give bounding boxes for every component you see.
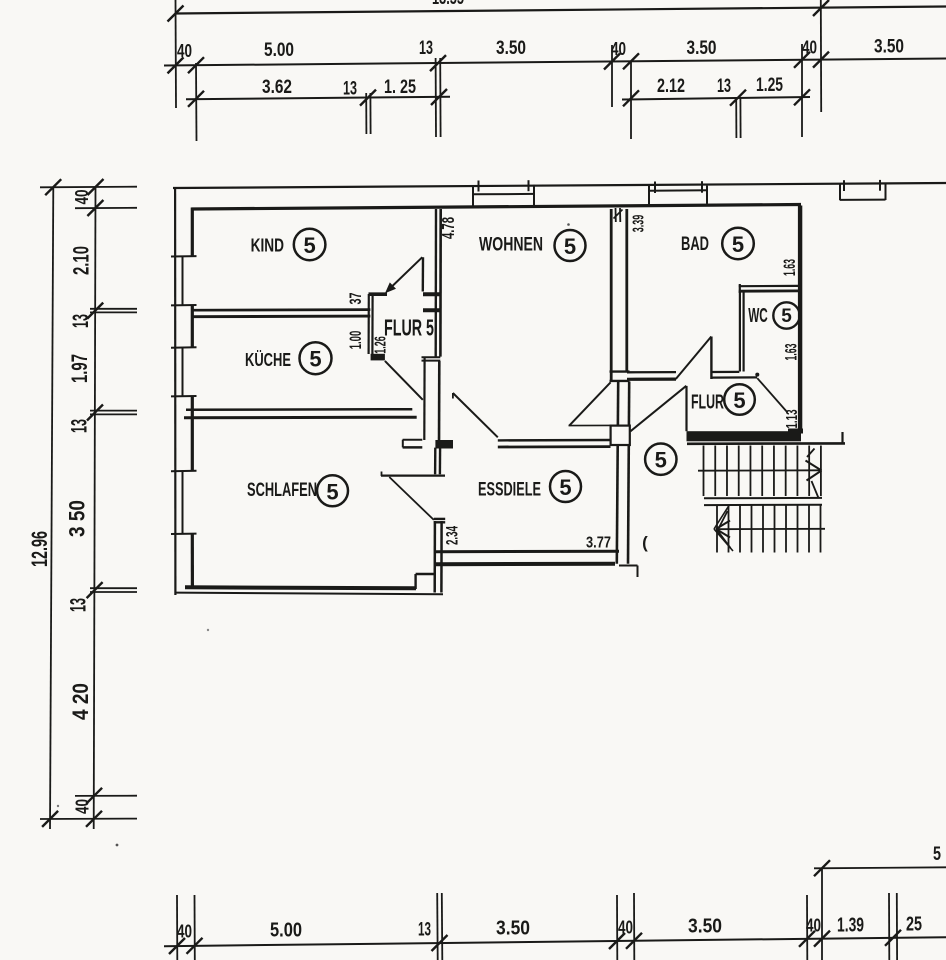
SCHLAFEN door swing — [389, 477, 434, 520]
left tick y=187 top — [40, 186, 137, 189]
BAD door leaf — [710, 337, 712, 380]
svg-text:13: 13 — [418, 919, 431, 941]
window WOHNEN (north wall) — [472, 185, 474, 207]
svg-text:13: 13 — [343, 78, 357, 100]
window SCHLAFEN (west wall) — [171, 470, 197, 472]
north exterior wall inner line — [192, 205, 802, 210]
window KUECHE (west wall) — [171, 346, 197, 348]
svg-text:40: 40 — [802, 38, 817, 58]
KUECHE door hinge block — [371, 354, 385, 361]
extension line x=612 (top) — [611, 45, 613, 107]
bottom partial dim line with 5 — [814, 867, 946, 868]
svg-text:3.50: 3.50 — [688, 916, 722, 938]
SCHLAFEN door leaf (open, horizontal) — [381, 475, 445, 477]
svg-text:WOHNEN: WOHNEN — [479, 233, 543, 255]
east wall bottom cap — [788, 429, 803, 434]
svg-text:40: 40 — [177, 41, 192, 61]
KUECHE door swing — [385, 361, 423, 400]
extension line x=175 (top) — [175, 0, 178, 108]
bottom dimension line (40/5.00/13/3.50/40/3.50/40/1.39/25) — [164, 937, 946, 946]
svg-text:5.00: 5.00 — [270, 920, 302, 942]
left tick y=310 double (13) — [90, 308, 137, 310]
BAD south wall right segment — [712, 371, 740, 373]
svg-text:5: 5 — [309, 347, 321, 372]
ESSDIELE north wall right segment — [498, 439, 611, 442]
svg-text:3.77: 3.77 — [586, 535, 611, 552]
left dimension inner vertical — [94, 187, 96, 829]
FLUR south wall (solid black) — [687, 431, 802, 441]
svg-text:40: 40 — [611, 39, 626, 59]
WC west wall — [739, 291, 741, 372]
svg-text:5: 5 — [933, 843, 941, 865]
svg-text:3.50: 3.50 — [874, 36, 904, 58]
extension line x=736/740 double (top 13) — [735, 97, 737, 138]
KIND door jamb cap left — [369, 292, 388, 296]
ESSDIELE east wall (to stair hall) — [617, 382, 618, 564]
svg-text:25: 25 — [906, 914, 922, 936]
WOHNEN/FLUR door leaf — [569, 382, 610, 425]
svg-text:1.97: 1.97 — [67, 354, 92, 383]
svg-text:1.63: 1.63 — [782, 344, 800, 361]
svg-text:FLUR 5: FLUR 5 — [384, 315, 434, 341]
WOHNEN west wall stub (thick) — [423, 357, 426, 440]
south exterior wall inner line (SCHLAFEN) — [185, 587, 416, 588]
svg-text:1.39: 1.39 — [837, 915, 864, 937]
svg-text:40: 40 — [806, 916, 821, 936]
BAD door swing — [676, 337, 712, 380]
room number KUECHE — [300, 342, 332, 374]
extension line x=821 (top) — [820, 0, 822, 112]
north exterior wall outer line — [173, 183, 946, 188]
room number SCHLAFEN — [317, 475, 348, 506]
svg-text:5: 5 — [732, 232, 744, 257]
left tick y=819 bottom — [40, 818, 137, 820]
jamb rect left of stub (ESSDIELE north-west) — [403, 439, 423, 441]
svg-text:40: 40 — [177, 922, 192, 942]
window BAD (north wall) — [648, 186, 650, 204]
svg-text:37: 37 — [346, 293, 365, 305]
room number ESSDIELE — [550, 471, 581, 502]
stair landing lines — [704, 497, 822, 499]
ESSDIELE south wall — [434, 550, 619, 554]
svg-text:13: 13 — [67, 419, 92, 433]
wall SCHLAFEN/ESSDIELE upper segment — [434, 448, 437, 475]
stair hall top line — [687, 442, 845, 445]
svg-text:BAD: BAD — [681, 234, 709, 255]
dimension line 2 (40/5.00/13/3.50/40/3.50/40/3.50) — [164, 59, 946, 66]
dimension line 3 left (3.62/13/1.25) — [186, 97, 450, 99]
svg-text:(: ( — [642, 533, 648, 552]
window right (north wall, neighbour) — [839, 184, 841, 200]
svg-text:1.13: 1.13 — [784, 409, 801, 428]
dimension line: overall width 13.55 (top) — [175, 7, 946, 14]
stair lower flight arrow (left) — [716, 528, 825, 530]
left tick y=796 — [75, 795, 137, 797]
wall KUECHE/SCHLAFEN — [186, 408, 412, 411]
svg-text:5: 5 — [303, 233, 315, 258]
wall SCHLAFEN/ESSDIELE lower segment — [434, 518, 445, 520]
svg-text:5: 5 — [733, 388, 745, 413]
svg-text:5: 5 — [781, 306, 792, 327]
extension line x=436/440 double (top 13) — [435, 58, 437, 137]
svg-text:1.00: 1.00 — [346, 331, 365, 350]
entrance jamb rect — [611, 426, 630, 445]
svg-text:1.63: 1.63 — [781, 259, 799, 276]
stair upper flight treads — [703, 446, 705, 497]
extension line x=631 (top) — [630, 61, 632, 139]
stair right stub — [841, 432, 843, 444]
bottom extension lines — [176, 895, 178, 960]
wall KIND/KUECHE — [192, 308, 370, 311]
svg-text:5: 5 — [655, 448, 667, 473]
svg-text:12.96: 12.96 — [27, 531, 52, 567]
svg-text:3.50: 3.50 — [687, 37, 717, 59]
svg-text:4 20: 4 20 — [68, 683, 93, 720]
svg-text:1.25: 1.25 — [756, 74, 783, 96]
svg-text:2.12: 2.12 — [657, 75, 685, 97]
svg-text:5.00: 5.00 — [264, 39, 294, 61]
WC north wall — [739, 285, 798, 288]
svg-text:1. 25: 1. 25 — [384, 76, 416, 98]
south exterior wall outer line — [175, 593, 443, 595]
WOHNEN/ESSDIELE door leaf — [453, 393, 498, 437]
left tick y=208 — [75, 207, 137, 209]
BAD south wall left segment — [627, 371, 676, 373]
svg-text:3 50: 3 50 — [65, 500, 90, 537]
stair arrow fletching — [718, 511, 728, 531]
threshold line WOHNEN — [569, 424, 611, 426]
svg-text:WC: WC — [748, 305, 768, 327]
room number WC — [773, 302, 799, 328]
extension line x=196 (top) — [195, 63, 198, 141]
WOHNEN/BAD wall bottom caps — [610, 370, 630, 372]
svg-text:3.62: 3.62 — [262, 76, 292, 98]
tick 11 on WOHNEN/BAD wall top — [615, 208, 617, 222]
west exterior wall inner line segments — [191, 208, 194, 257]
svg-text:3.39: 3.39 — [631, 215, 648, 233]
svg-text:2.34: 2.34 — [442, 526, 461, 545]
stair upper flight arrow (up, right) — [698, 469, 820, 471]
bottom extension x=822 upper — [821, 868, 823, 960]
stair lower flight treads — [716, 505, 718, 553]
ESSDIELE north wall left stub (solid) — [435, 440, 453, 449]
ESSDIELE south-east hook — [619, 565, 638, 567]
stray scan dots — [567, 223, 570, 226]
window KIND (west wall) — [171, 255, 197, 257]
svg-text:40: 40 — [72, 190, 92, 205]
svg-text:5: 5 — [564, 234, 576, 259]
room number BAD — [722, 228, 754, 260]
svg-text:KIND: KIND — [251, 235, 284, 256]
left dimension outer vertical (12.96) — [50, 187, 53, 829]
svg-text:3.50: 3.50 — [496, 918, 530, 940]
svg-text:40: 40 — [618, 918, 633, 938]
room number FLUR right — [724, 384, 755, 415]
svg-text:SCHLAFEN: SCHLAFEN — [247, 480, 317, 501]
central wall niche caps (KIND door rebate) — [423, 292, 441, 296]
KUECHE east wall (jamb of FLUR 5) — [368, 294, 370, 354]
svg-text:4.78: 4.78 — [438, 217, 458, 239]
svg-text:2.10: 2.10 — [69, 246, 94, 275]
KIND door swing chord with arrow — [388, 257, 422, 290]
svg-text:13: 13 — [717, 75, 731, 97]
left tick y=590 double (13) — [90, 587, 137, 589]
extension line x=802 (top) — [801, 44, 803, 137]
svg-text:13: 13 — [419, 37, 433, 59]
svg-text:KÜCHE: KÜCHE — [245, 349, 291, 370]
wall WOHNEN/BAD — [610, 209, 613, 382]
svg-text:13.55: 13.55 — [432, 0, 464, 9]
entrance door leaf (to stair landing) — [630, 386, 686, 432]
WC door swing — [757, 378, 787, 412]
svg-text:13: 13 — [66, 598, 91, 612]
svg-text:40: 40 — [73, 799, 93, 814]
svg-text:5: 5 — [559, 475, 571, 500]
left tick y=412 double (13) — [90, 410, 137, 412]
room number near entrance — [645, 444, 676, 475]
svg-text:FLUR: FLUR — [691, 391, 724, 414]
dimension line 3 right (2.12/13/1.25) — [622, 97, 810, 100]
svg-text:5: 5 — [326, 479, 338, 504]
room number KIND — [294, 229, 326, 261]
room number WOHNEN — [555, 230, 586, 261]
KIND door leaf (open) — [422, 257, 425, 291]
svg-text:13: 13 — [68, 314, 93, 328]
east exterior wall (BAD/WC side) — [798, 206, 802, 434]
south-east step of SCHLAFEN — [414, 574, 416, 589]
svg-text:3.50: 3.50 — [496, 37, 526, 59]
FLUR west jamb vertical — [685, 386, 687, 431]
svg-text:1.26: 1.26 — [373, 336, 390, 354]
central wall KIND-WOHNEN upper — [435, 209, 438, 357]
svg-text:ESSDIELE: ESSDIELE — [478, 479, 541, 501]
west exterior wall outer line — [174, 188, 176, 595]
